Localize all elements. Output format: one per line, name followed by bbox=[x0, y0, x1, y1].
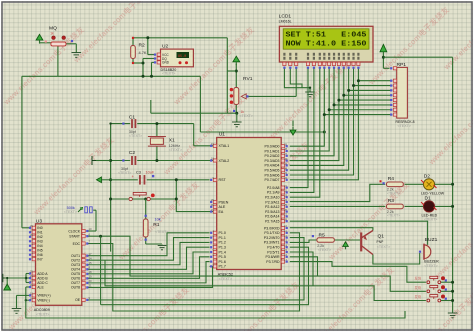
svg-text:P0.3/AD3: P0.3/AD3 bbox=[265, 159, 280, 163]
svg-text:22: 22 bbox=[284, 189, 288, 193]
svg-text:28: 28 bbox=[30, 233, 34, 237]
svg-text:EOC: EOC bbox=[73, 242, 81, 246]
svg-text:34: 34 bbox=[284, 166, 288, 170]
svg-text:P0.6/AD6: P0.6/AD6 bbox=[265, 173, 280, 177]
svg-text:25: 25 bbox=[284, 203, 288, 207]
svg-text:10uF: 10uF bbox=[146, 171, 155, 175]
svg-text:P3.3/INT1: P3.3/INT1 bbox=[264, 241, 280, 245]
svg-text:CLOCK: CLOCK bbox=[68, 229, 80, 233]
svg-text:P3.0/RXD: P3.0/RXD bbox=[264, 226, 280, 230]
svg-text:14: 14 bbox=[284, 243, 288, 247]
svg-text:15: 15 bbox=[89, 261, 93, 265]
svg-text:16: 16 bbox=[284, 253, 288, 257]
svg-text:<TEXT>: <TEXT> bbox=[36, 312, 49, 316]
svg-text:18: 18 bbox=[89, 270, 93, 274]
svg-text:LED-YELLOW: LED-YELLOW bbox=[421, 191, 445, 195]
svg-text:22: 22 bbox=[30, 283, 34, 287]
svg-text:P0.5/AD5: P0.5/AD5 bbox=[265, 169, 280, 173]
svg-text:ADD B: ADD B bbox=[37, 276, 48, 280]
svg-text:R2: R2 bbox=[139, 43, 146, 49]
svg-text:24: 24 bbox=[284, 198, 288, 202]
svg-text:IN7: IN7 bbox=[37, 258, 42, 262]
svg-text:P1.1: P1.1 bbox=[219, 236, 226, 240]
svg-text:START: START bbox=[69, 235, 80, 239]
svg-text:19: 19 bbox=[211, 142, 215, 146]
svg-text:<TEXT>: <TEXT> bbox=[424, 264, 437, 268]
svg-text:17: 17 bbox=[284, 258, 288, 262]
svg-text:PNP: PNP bbox=[377, 240, 385, 244]
svg-text:<TEXT>: <TEXT> bbox=[64, 210, 77, 214]
svg-text:P1.3: P1.3 bbox=[219, 246, 226, 250]
svg-text:OUT4: OUT4 bbox=[71, 268, 80, 272]
svg-text:21: 21 bbox=[284, 184, 288, 188]
svg-text:<TEXT>: <TEXT> bbox=[387, 192, 400, 196]
svg-text:<TEXT>: <TEXT> bbox=[377, 245, 390, 249]
svg-text:P2.1/A9: P2.1/A9 bbox=[267, 191, 280, 195]
svg-text:XTAL2: XTAL2 bbox=[219, 159, 230, 163]
svg-text:<TEXT>: <TEXT> bbox=[318, 248, 331, 252]
svg-text:20: 20 bbox=[89, 279, 93, 283]
svg-text:P2.6/A14: P2.6/A14 bbox=[265, 215, 279, 219]
svg-text:BUZ1: BUZ1 bbox=[425, 237, 438, 243]
svg-text:BUZZER: BUZZER bbox=[424, 260, 439, 264]
svg-text:R3: R3 bbox=[388, 198, 395, 204]
svg-text:P2.0/A8: P2.0/A8 bbox=[267, 186, 280, 190]
svg-text:OUT6: OUT6 bbox=[71, 277, 80, 281]
svg-text:P1.0: P1.0 bbox=[219, 231, 226, 235]
svg-text:14: 14 bbox=[89, 256, 93, 260]
svg-text:12: 12 bbox=[30, 292, 34, 296]
svg-text:P3.7/RD: P3.7/RD bbox=[266, 260, 280, 264]
svg-text:P1.6: P1.6 bbox=[219, 260, 226, 264]
svg-text:ADC0809: ADC0809 bbox=[34, 308, 50, 312]
svg-text:<TEXT>: <TEXT> bbox=[169, 148, 182, 152]
svg-text:RST: RST bbox=[219, 178, 227, 182]
svg-text:19: 19 bbox=[89, 275, 93, 279]
svg-text:<TEXT>: <TEXT> bbox=[424, 218, 437, 222]
svg-text:OE: OE bbox=[75, 298, 81, 302]
svg-text:12: 12 bbox=[284, 234, 288, 238]
svg-text:P3.6/WR: P3.6/WR bbox=[265, 255, 279, 259]
svg-text:<TEXT>: <TEXT> bbox=[162, 71, 175, 75]
svg-text:85.0: 85.0 bbox=[178, 55, 186, 59]
svg-text:33: 33 bbox=[284, 171, 288, 175]
svg-text:37: 37 bbox=[284, 152, 288, 156]
svg-text:<TEXT>: <TEXT> bbox=[387, 214, 400, 218]
svg-text:ADD C: ADD C bbox=[37, 281, 48, 285]
svg-text:13: 13 bbox=[284, 239, 288, 243]
svg-text:4.7K: 4.7K bbox=[139, 50, 147, 55]
svg-text:C3: C3 bbox=[136, 171, 141, 175]
svg-text:38: 38 bbox=[284, 147, 288, 151]
svg-text:ALE: ALE bbox=[37, 285, 44, 289]
svg-text:27: 27 bbox=[30, 228, 34, 232]
svg-text:P0.2/AD2: P0.2/AD2 bbox=[265, 154, 280, 158]
svg-text:C2: C2 bbox=[129, 150, 136, 156]
svg-text:P0.1/AD1: P0.1/AD1 bbox=[265, 149, 280, 153]
svg-text:LM016L: LM016L bbox=[279, 19, 292, 23]
svg-text:10: 10 bbox=[89, 227, 93, 231]
svg-text:<TEXT>: <TEXT> bbox=[129, 134, 142, 138]
svg-text:35: 35 bbox=[284, 162, 288, 166]
svg-text:OUT7: OUT7 bbox=[71, 281, 80, 285]
svg-text:P2.5/A13: P2.5/A13 bbox=[265, 210, 279, 214]
svg-text:P0.4/AD4: P0.4/AD4 bbox=[265, 164, 280, 168]
svg-text:32: 32 bbox=[284, 176, 288, 180]
svg-text:P2.7/A15: P2.7/A15 bbox=[265, 220, 279, 224]
svg-text:P1.4: P1.4 bbox=[219, 250, 226, 254]
svg-text:VREF(+): VREF(+) bbox=[37, 294, 50, 298]
svg-text:RV1: RV1 bbox=[243, 76, 253, 82]
svg-text:OUT1: OUT1 bbox=[71, 254, 80, 258]
svg-text:P1.5: P1.5 bbox=[219, 255, 226, 259]
svg-text:21: 21 bbox=[89, 284, 93, 288]
svg-text:<TEXT>: <TEXT> bbox=[240, 114, 253, 118]
svg-text:IN1: IN1 bbox=[37, 231, 42, 235]
svg-text:XTAL1: XTAL1 bbox=[219, 144, 230, 148]
svg-text:ADD A: ADD A bbox=[37, 272, 48, 276]
svg-text:R4: R4 bbox=[388, 176, 395, 182]
svg-text:29: 29 bbox=[211, 198, 215, 202]
svg-text:<TEXT>: <TEXT> bbox=[155, 230, 168, 234]
svg-text:X1: X1 bbox=[169, 138, 175, 144]
svg-text:Q1: Q1 bbox=[378, 234, 385, 240]
svg-text:IN5: IN5 bbox=[37, 249, 42, 253]
svg-text:25: 25 bbox=[30, 270, 34, 274]
svg-text:<TEXT>: <TEXT> bbox=[118, 171, 131, 175]
svg-text:36: 36 bbox=[284, 157, 288, 161]
svg-text:P1.2: P1.2 bbox=[219, 241, 226, 245]
svg-text:31: 31 bbox=[211, 208, 215, 212]
svg-text:P3.4/T0: P3.4/T0 bbox=[267, 246, 279, 250]
svg-text:15: 15 bbox=[284, 248, 288, 252]
svg-text:10k: 10k bbox=[155, 217, 161, 221]
svg-text:PSEN: PSEN bbox=[219, 200, 229, 204]
svg-text:11: 11 bbox=[284, 229, 287, 233]
svg-text:16: 16 bbox=[30, 296, 34, 300]
svg-text:23: 23 bbox=[30, 279, 34, 283]
svg-text:U1: U1 bbox=[219, 132, 226, 138]
svg-text:27: 27 bbox=[284, 213, 288, 217]
svg-text:VREF(-): VREF(-) bbox=[37, 299, 49, 303]
svg-text:IN6: IN6 bbox=[37, 253, 42, 257]
svg-text:R1: R1 bbox=[153, 222, 160, 228]
svg-text:IN0: IN0 bbox=[37, 226, 42, 230]
svg-text:1k: 1k bbox=[50, 31, 54, 35]
svg-text:P3.2/INT0: P3.2/INT0 bbox=[264, 236, 280, 240]
svg-text:18: 18 bbox=[211, 157, 215, 161]
svg-text:+: + bbox=[132, 174, 135, 179]
svg-text:OUT5: OUT5 bbox=[71, 272, 80, 276]
svg-text:P0.7/AD7: P0.7/AD7 bbox=[265, 178, 280, 182]
svg-text:NOW T:41.0 E:150: NOW T:41.0 E:150 bbox=[286, 40, 367, 48]
svg-text:P1.7: P1.7 bbox=[219, 265, 226, 269]
svg-text:26: 26 bbox=[30, 224, 34, 228]
svg-text:IN2: IN2 bbox=[37, 235, 42, 239]
svg-text:P2.4/A12: P2.4/A12 bbox=[265, 205, 279, 209]
svg-text:28: 28 bbox=[284, 217, 288, 221]
svg-text:发烧: 发烧 bbox=[415, 285, 422, 290]
svg-text:发烧: 发烧 bbox=[415, 276, 422, 281]
svg-text:IN4: IN4 bbox=[37, 244, 42, 248]
svg-text:<TEXT>: <TEXT> bbox=[398, 124, 411, 128]
svg-text:ALE: ALE bbox=[219, 205, 226, 209]
svg-text:30: 30 bbox=[211, 203, 215, 207]
svg-text:26: 26 bbox=[284, 208, 288, 212]
svg-text:P3.5/T1: P3.5/T1 bbox=[267, 250, 279, 254]
svg-text:<TEXT>: <TEXT> bbox=[219, 277, 232, 281]
svg-text:P2.2/A10: P2.2/A10 bbox=[265, 196, 279, 200]
svg-text:OUT3: OUT3 bbox=[71, 263, 80, 267]
svg-text:23: 23 bbox=[284, 193, 288, 197]
svg-text:P3.1/TXD: P3.1/TXD bbox=[264, 231, 280, 235]
svg-text:OUT8: OUT8 bbox=[71, 286, 80, 290]
svg-text:SET T:51 E:045: SET T:51 E:045 bbox=[286, 32, 367, 40]
svg-text:24: 24 bbox=[30, 274, 34, 278]
svg-text:IN3: IN3 bbox=[37, 240, 42, 244]
svg-text:EA: EA bbox=[219, 210, 224, 214]
svg-text:17: 17 bbox=[89, 252, 93, 256]
svg-text:发烧: 发烧 bbox=[415, 294, 422, 299]
svg-text:OUT2: OUT2 bbox=[71, 259, 80, 263]
svg-text:P0.0/AD0: P0.0/AD0 bbox=[265, 145, 280, 149]
svg-text:39: 39 bbox=[284, 142, 288, 146]
svg-text:P2.3/A11: P2.3/A11 bbox=[265, 200, 279, 204]
svg-text:GND: GND bbox=[162, 61, 170, 65]
svg-text:10: 10 bbox=[284, 224, 288, 228]
